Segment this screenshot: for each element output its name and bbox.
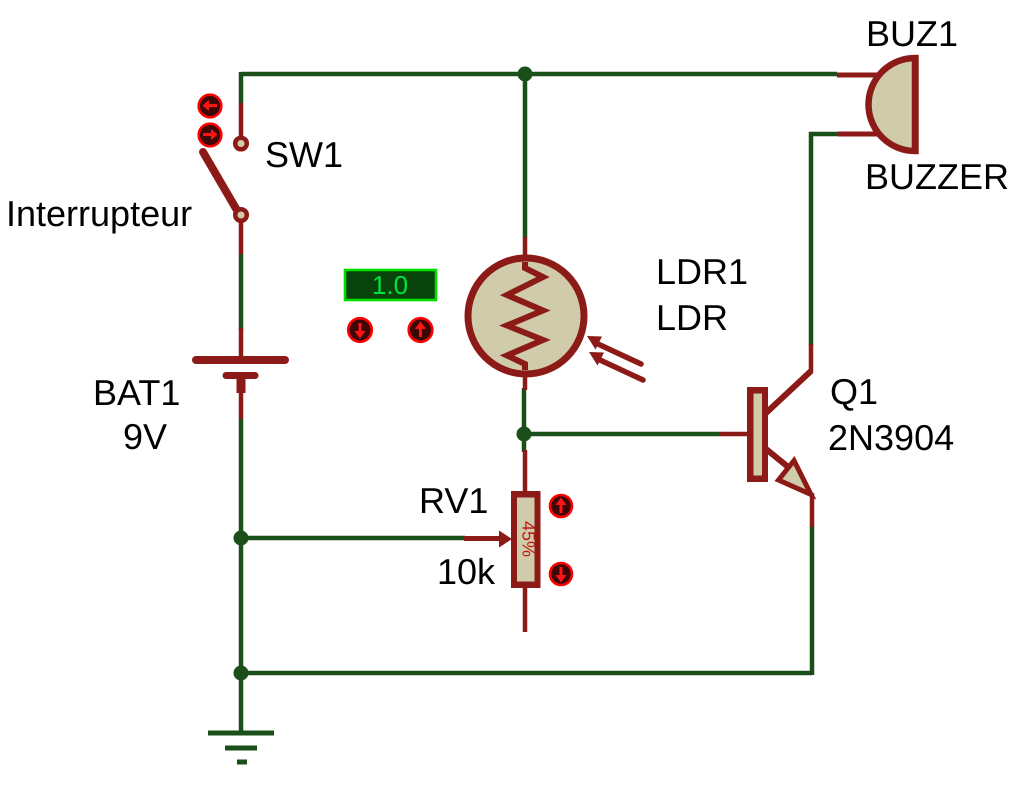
wire left drop from top rail [239, 72, 244, 104]
Q1 collector diagonal [766, 371, 811, 413]
svg-text:LDR1: LDR1 [656, 251, 748, 292]
buzzer BUZ1 flat edge [912, 55, 919, 154]
node junction wiper left [234, 531, 249, 546]
wire emitter down [810, 526, 815, 675]
svg-text:BUZ1: BUZ1 [866, 13, 958, 54]
wire LDR bottom to junction [522, 388, 527, 436]
LDR button down-arrow [348, 318, 372, 342]
transistor Q1 bar [747, 387, 768, 482]
wire bottom rail [241, 671, 812, 676]
svg-text:45%: 45% [519, 521, 539, 557]
battery BAT1 stub [237, 378, 246, 393]
LDR display box [345, 270, 436, 300]
wire LDR top [523, 74, 528, 238]
svg-text:10k: 10k [437, 551, 496, 592]
battery BAT1 short plate [226, 372, 255, 379]
pin Q1 emitter lead [810, 493, 815, 527]
LDR1 body circle [468, 258, 584, 374]
wire battery to bottom [239, 418, 244, 675]
svg-text:2N3904: 2N3904 [828, 417, 954, 458]
Q1 emitter diagonal [766, 449, 798, 475]
node junction LDR/base/RV1 [517, 427, 532, 442]
wire ground drop [239, 673, 244, 733]
LDR1 zigzag resistor [507, 262, 543, 370]
wire junction to base [524, 432, 721, 437]
LDR light arrow 2 [589, 352, 643, 380]
switch SW1 button right-arrow [199, 124, 222, 147]
pin battery top lead [239, 328, 244, 357]
RV1 wiper arrow [464, 536, 501, 541]
svg-text:LDR: LDR [656, 297, 728, 338]
wire buzzer bottom to collector [811, 134, 838, 345]
wire wiper horizontal [241, 536, 465, 541]
pin Q1 collector lead [809, 344, 814, 373]
switch SW1 button left-arrow [199, 95, 222, 118]
svg-text:RV1: RV1 [419, 480, 488, 521]
battery BAT1 long plate [196, 356, 285, 364]
pin Q1 base lead [719, 432, 748, 437]
svg-text:Q1: Q1 [830, 371, 878, 412]
switch SW1 lever [203, 152, 238, 212]
wire switch to battery [239, 253, 244, 330]
switch SW1 top pin circle [235, 138, 247, 150]
pin RV1 top lead [523, 450, 528, 494]
pin battery bottom lead [239, 392, 244, 419]
svg-text:Interrupteur: Interrupteur [6, 193, 192, 234]
LDR light arrow 1 [587, 336, 641, 364]
pin buzzer top lead [837, 73, 880, 78]
node junction ground [234, 666, 249, 681]
RV1 button down-arrow [550, 563, 572, 585]
potentiometer RV1 body [511, 491, 541, 588]
node junction top rail [518, 67, 533, 82]
pin LDR bottom lead [523, 370, 528, 390]
svg-text:SW1: SW1 [265, 134, 343, 175]
switch SW1 bottom pin circle [235, 209, 247, 221]
pin buzzer bottom lead [838, 132, 880, 137]
svg-text:BUZZER: BUZZER [865, 156, 1009, 197]
buzzer BUZ1 body [869, 58, 916, 151]
pin SW1 bottom lead [239, 215, 244, 254]
pin LDR top lead [523, 237, 528, 262]
svg-text:1.0: 1.0 [372, 270, 408, 300]
svg-text:9V: 9V [123, 416, 167, 457]
Q1 emitter arrow [779, 461, 812, 495]
svg-text:BAT1: BAT1 [93, 372, 180, 413]
ground [208, 733, 274, 762]
LDR button up-arrow [409, 318, 433, 342]
wire junction to RV1 [522, 434, 527, 452]
pin RV1 bottom lead [523, 586, 528, 632]
pin SW1 top lead [239, 103, 244, 137]
wire top rail [241, 72, 837, 77]
RV1 button up-arrow [550, 495, 572, 517]
